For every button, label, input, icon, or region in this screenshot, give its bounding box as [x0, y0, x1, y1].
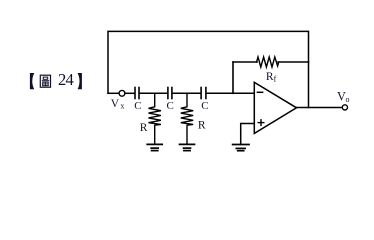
svg-text:C: C — [167, 100, 174, 112]
svg-text:x: x — [120, 102, 124, 111]
resistor R2 — [181, 93, 193, 144]
wire C3 to op-amp — [207, 92, 255, 94]
resistor R1 — [149, 93, 161, 144]
node Vo terminal circle — [342, 105, 347, 110]
svg-text:C: C — [201, 100, 208, 112]
wire C2 to C3 — [173, 92, 201, 94]
wire top loop — [108, 31, 309, 107]
wire Rf left segment — [233, 61, 257, 63]
svg-text:R: R — [140, 122, 148, 134]
label Rf — [266, 71, 277, 84]
capacitor C1 — [134, 88, 136, 99]
svg-text:C: C — [134, 100, 141, 112]
wire Vx to C1 — [125, 92, 134, 94]
wire left stub to Vx terminal — [108, 92, 119, 94]
pin + (non-inverting input mark) — [258, 120, 264, 126]
right lenticular bracket — [78, 73, 82, 89]
capacitor C2 — [167, 88, 169, 99]
svg-text:o: o — [346, 95, 350, 104]
svg-text:R: R — [198, 120, 206, 132]
svg-text:24: 24 — [58, 70, 74, 89]
label Vx — [111, 98, 125, 110]
wire + input to ground — [241, 124, 255, 144]
svg-text:V: V — [111, 98, 120, 110]
left lenticular bracket — [30, 73, 34, 89]
node Vx terminal circle — [119, 90, 125, 96]
ground (below R1) — [147, 144, 162, 150]
svg-text:f: f — [274, 75, 277, 84]
wire feedback riser at node between C3 and op-amp — [232, 62, 234, 93]
resistor Rf — [257, 57, 279, 67]
wire output — [297, 107, 343, 109]
wire C1 to C2 — [140, 92, 167, 94]
pin - (inverting input mark) — [257, 91, 262, 93]
ground (op-amp + input) — [233, 145, 249, 151]
glyph 圖 — [40, 75, 50, 87]
capacitor C3 — [200, 88, 202, 99]
caption 【圖 24】 — [30, 70, 82, 89]
op-amp U1 — [254, 82, 296, 133]
ground (below R2) — [180, 144, 195, 150]
label Vo — [337, 89, 350, 103]
wire Rf right segment — [278, 61, 309, 63]
